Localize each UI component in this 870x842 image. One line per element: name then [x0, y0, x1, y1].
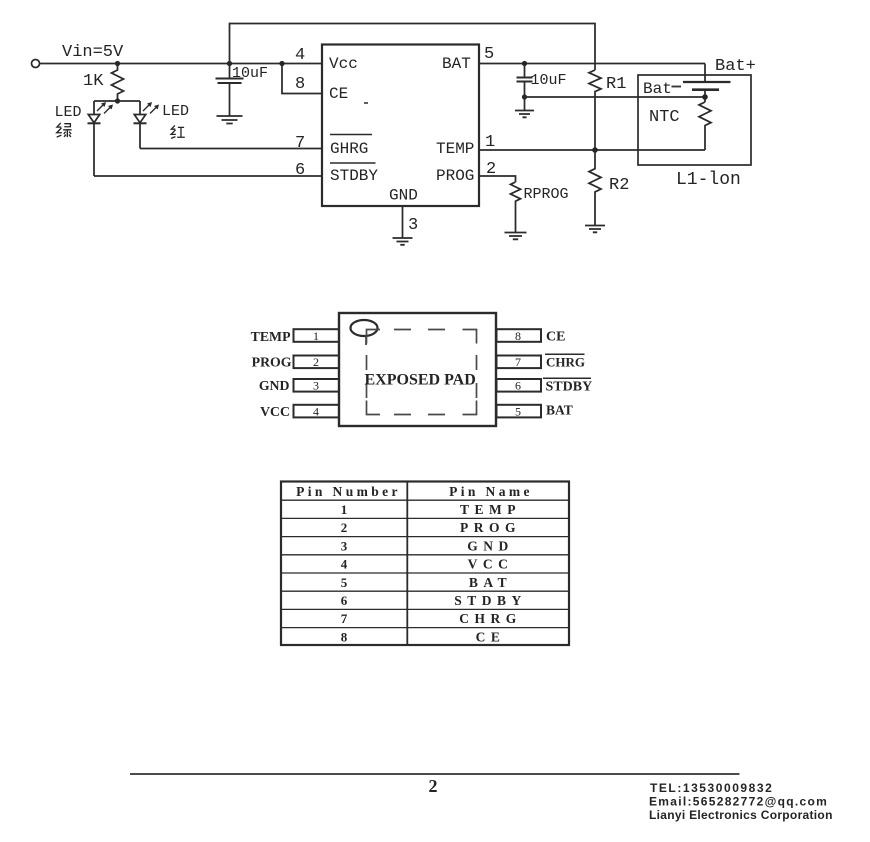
- junction 1K/LED rail: [115, 98, 120, 103]
- svg-text:8: 8: [515, 329, 521, 343]
- svg-text:PROG: PROG: [436, 167, 474, 185]
- wire Vin main rail: [40, 63, 323, 65]
- battery labels: [672, 86, 682, 88]
- svg-text:Email:565282772@qq.com: Email:565282772@qq.com: [649, 795, 828, 809]
- svg-text:CE: CE: [329, 85, 348, 103]
- wire CE pin8: [282, 64, 322, 94]
- svg-text:RPROG: RPROG: [524, 186, 569, 203]
- svg-text:1: 1: [313, 329, 319, 343]
- svg-text:TEMP: TEMP: [460, 502, 521, 517]
- wire LED anode rail: [94, 100, 140, 102]
- svg-text:8: 8: [295, 75, 305, 94]
- wire C2 to ground: [524, 97, 526, 111]
- pin 7: [497, 355, 542, 369]
- svg-text:CE: CE: [546, 330, 565, 345]
- svg-text:6: 6: [295, 161, 305, 180]
- junction Vin/1K: [115, 61, 120, 66]
- ground under R2: [585, 226, 605, 233]
- svg-text:Vcc: Vcc: [329, 55, 358, 73]
- wire Bat- to C2: [525, 96, 706, 98]
- svg-text:NTC: NTC: [649, 108, 680, 127]
- wire CHRG pin7: [140, 148, 322, 150]
- svg-text:3: 3: [313, 379, 319, 393]
- pin1 indicator circle: [351, 320, 378, 336]
- svg-text:LED: LED: [55, 104, 82, 121]
- svg-text:7: 7: [341, 611, 348, 626]
- svg-text:STDBY: STDBY: [546, 380, 593, 395]
- svg-text:EXPOSED PAD: EXPOSED PAD: [365, 372, 476, 389]
- svg-text:PROG: PROG: [252, 354, 292, 369]
- pin numbers: [295, 45, 496, 235]
- pin labels right: [546, 330, 593, 418]
- thermistor NTC: [699, 102, 711, 150]
- svg-text:3: 3: [341, 538, 348, 553]
- svg-text:2: 2: [429, 776, 438, 796]
- svg-text:1K: 1K: [83, 72, 104, 91]
- svg-text:Bat+: Bat+: [715, 57, 756, 76]
- svg-text:LED: LED: [162, 103, 189, 120]
- svg-text:4: 4: [313, 404, 319, 418]
- hanzi red (hong): [171, 125, 185, 138]
- svg-text:Pin Number: Pin Number: [296, 484, 401, 499]
- junction CE branch: [279, 61, 284, 66]
- wire BAT pin5: [479, 63, 705, 65]
- pin 4: [294, 404, 340, 418]
- wire STDBY pin6: [94, 175, 322, 177]
- wire BAT down to plate: [704, 64, 706, 83]
- svg-text:Lianyi Electronics Corporation: Lianyi Electronics Corporation: [649, 808, 833, 822]
- svg-text:CHRG: CHRG: [459, 611, 522, 626]
- svg-text:GHRG: GHRG: [330, 140, 368, 158]
- svg-text:10uF: 10uF: [232, 65, 268, 82]
- op IC U1 box: [322, 45, 479, 207]
- pin 8: [497, 329, 542, 343]
- ground pin3: [393, 238, 413, 245]
- svg-text:GND: GND: [389, 187, 418, 205]
- battery cell plates: [683, 81, 731, 83]
- svg-text:6: 6: [341, 593, 348, 608]
- junction R1/R2/TEMP: [592, 147, 598, 153]
- pin 5: [497, 404, 542, 418]
- stray dash mark: [364, 102, 368, 104]
- svg-text:BAT: BAT: [546, 402, 573, 417]
- svg-text:2: 2: [341, 520, 348, 535]
- pin 3: [294, 379, 340, 393]
- svg-text:7: 7: [295, 134, 305, 153]
- svg-text:BAT: BAT: [442, 55, 471, 73]
- svg-text:Pin Name: Pin Name: [449, 484, 533, 499]
- svg-text:CHRG: CHRG: [546, 355, 585, 370]
- capacitor C1 10uF: [216, 79, 244, 117]
- junction C2 top: [522, 61, 527, 66]
- svg-text:1: 1: [341, 502, 348, 517]
- svg-text:8: 8: [341, 629, 348, 644]
- svg-text:7: 7: [515, 355, 521, 369]
- IC pin name labels: [329, 55, 474, 205]
- junction C1/top rail: [227, 61, 232, 66]
- input terminal: [32, 60, 40, 68]
- overline CHRG: [545, 353, 585, 355]
- pin 1: [294, 329, 340, 343]
- resistor 1K: [112, 64, 124, 102]
- svg-text:TEL:13530009832: TEL:13530009832: [650, 781, 773, 795]
- wire TEMP pin1: [479, 149, 705, 151]
- svg-text:10uF: 10uF: [531, 72, 567, 89]
- junction Bat-/NTC: [702, 94, 708, 100]
- svg-text:VCC: VCC: [260, 404, 290, 419]
- package body U1: [339, 313, 496, 426]
- wire top rail: [230, 24, 596, 79]
- svg-text:4: 4: [295, 46, 305, 65]
- svg-text:3: 3: [408, 216, 418, 235]
- table pin map: [281, 482, 569, 646]
- resistor RPROG: [511, 182, 521, 232]
- wire PROG pin2: [479, 176, 516, 182]
- svg-text:Vin=5V: Vin=5V: [62, 43, 124, 62]
- overline STDBY: [330, 162, 376, 164]
- svg-text:GND: GND: [259, 378, 290, 393]
- svg-text:R1: R1: [606, 75, 626, 94]
- node Vin label: [62, 43, 124, 62]
- battery box L1-lon: [638, 75, 751, 165]
- pin 6: [497, 379, 542, 393]
- ground RPROG: [505, 233, 527, 240]
- svg-text:CE: CE: [476, 629, 506, 644]
- svg-text:6: 6: [515, 379, 521, 393]
- svg-text:4: 4: [341, 557, 348, 572]
- svg-text:PROG: PROG: [460, 520, 521, 535]
- resistor R1: [589, 70, 601, 150]
- ground under C2: [515, 111, 534, 118]
- pin labels left: [251, 329, 292, 419]
- svg-text:2: 2: [313, 355, 319, 369]
- overline STDBY: [543, 377, 591, 379]
- svg-text:5: 5: [341, 575, 348, 590]
- svg-text:STDBY: STDBY: [330, 167, 378, 185]
- svg-text:R2: R2: [609, 176, 629, 195]
- overline GHRG: [330, 134, 372, 136]
- svg-text:STDBY: STDBY: [454, 593, 527, 608]
- exposed pad dashed outline: [367, 330, 477, 415]
- LED red D2: [134, 101, 159, 149]
- svg-text:BAT: BAT: [469, 575, 512, 590]
- capacitor C2 10uF: [517, 64, 533, 98]
- svg-text:5: 5: [515, 404, 521, 418]
- junction C2 bottom: [522, 94, 527, 99]
- svg-text:TEMP: TEMP: [251, 329, 291, 344]
- svg-text:L1-lon: L1-lon: [676, 170, 741, 190]
- footer rule: [130, 773, 740, 775]
- svg-text:VCC: VCC: [468, 557, 514, 572]
- svg-text:GND: GND: [467, 538, 514, 553]
- hanzi green (lv): [57, 123, 72, 137]
- svg-text:Bat: Bat: [643, 80, 672, 98]
- svg-text:5: 5: [484, 45, 494, 64]
- ground under C1: [217, 116, 243, 124]
- wire GND pin3: [402, 206, 404, 238]
- resistor R2: [589, 150, 601, 225]
- pin 2: [294, 355, 340, 369]
- svg-text:TEMP: TEMP: [436, 140, 474, 158]
- footer contact block: [649, 781, 833, 822]
- exposed pad label: [365, 372, 476, 389]
- LED green D1: [88, 101, 113, 176]
- wire plate to NTC: [704, 90, 706, 102]
